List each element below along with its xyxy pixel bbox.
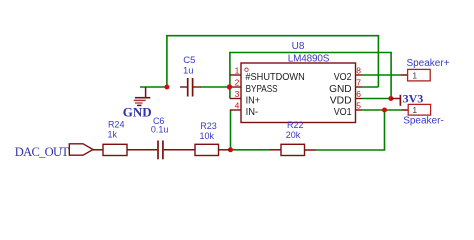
junction dot VDD/3V3 bbox=[388, 96, 393, 101]
wire GND symbol to C5 bbox=[140, 86, 167, 88]
wire pin6 VDD bbox=[362, 98, 391, 100]
capacitor C5 plates bbox=[188, 78, 193, 97]
svg-text:VDD: VDD bbox=[330, 94, 352, 106]
wire R24 to C6 (pins) bbox=[127, 149, 157, 151]
svg-text:R24: R24 bbox=[108, 119, 125, 129]
connector Speaker+ body bbox=[408, 69, 431, 81]
svg-text:LM4890S: LM4890S bbox=[288, 53, 330, 64]
svg-text:6: 6 bbox=[356, 89, 361, 99]
svg-text:GND: GND bbox=[123, 105, 152, 120]
U8 designator marker circle bbox=[245, 68, 248, 71]
port DAC_OUT flag bbox=[69, 144, 93, 155]
svg-text:IN-: IN- bbox=[246, 106, 259, 118]
svg-text:VO2: VO2 bbox=[334, 71, 352, 83]
R22 pin stubs bbox=[269, 149, 317, 151]
op-amp U8 LM4890S body bbox=[241, 63, 356, 123]
wire 3V3 net: top horizontal run bbox=[229, 52, 392, 54]
capacitor C5 pin stubs bbox=[180, 86, 201, 88]
svg-text:#SHUTDOWN: #SHUTDOWN bbox=[245, 71, 304, 83]
svg-text:IN+: IN+ bbox=[246, 94, 261, 106]
svg-text:1: 1 bbox=[412, 105, 417, 115]
svg-text:1k: 1k bbox=[108, 129, 118, 139]
svg-text:Speaker-: Speaker- bbox=[403, 115, 444, 126]
U8 pin stubs left bbox=[230, 75, 242, 110]
wire GND net: vertical from C5/GND junction up bbox=[166, 36, 168, 87]
U8 pin stubs right bbox=[356, 75, 363, 110]
junction dot R23/R22/IN- bbox=[228, 147, 233, 152]
junction dot VO1/Speaker- bbox=[382, 108, 387, 113]
svg-text:VO1: VO1 bbox=[334, 106, 352, 118]
svg-text:GND: GND bbox=[329, 83, 352, 95]
svg-text:20k: 20k bbox=[286, 130, 301, 140]
power port 3V3 pin bbox=[391, 98, 400, 100]
svg-text:1: 1 bbox=[412, 71, 417, 81]
svg-text:C5: C5 bbox=[183, 55, 195, 66]
svg-text:7: 7 bbox=[356, 78, 361, 88]
svg-text:R22: R22 bbox=[287, 120, 304, 130]
wire junction to R22 left bbox=[231, 149, 269, 151]
wire R23 to junction (pin) bbox=[219, 149, 231, 151]
svg-text:0.1u: 0.1u bbox=[151, 124, 169, 134]
connector Speaker+ pin stub bbox=[401, 74, 408, 76]
wire C6 to R23 (pins) bbox=[164, 149, 195, 151]
svg-text:1: 1 bbox=[235, 66, 240, 76]
svg-text:8: 8 bbox=[356, 66, 361, 76]
resistor R24 body bbox=[103, 144, 127, 155]
svg-text:BYPASS: BYPASS bbox=[246, 83, 278, 95]
svg-text:U8: U8 bbox=[292, 41, 305, 52]
wire pin7 GND to vertical bbox=[362, 86, 378, 88]
wire flag to R24 (pin) bbox=[92, 149, 103, 151]
junction dot C5/GND bbox=[164, 85, 169, 90]
connector Speaker- body bbox=[408, 104, 430, 115]
wire 3V3 net: vertical down to VDD bbox=[390, 53, 392, 99]
wire pin5 VO1 to Speaker- bbox=[362, 109, 401, 111]
resistor R23 body bbox=[195, 144, 219, 155]
svg-text:3V3: 3V3 bbox=[403, 92, 424, 106]
svg-text:1u: 1u bbox=[183, 66, 194, 77]
wire pin8 VO2 to Speaker+ bbox=[362, 74, 401, 76]
junction dot BYPASS pin2 bbox=[227, 84, 232, 89]
svg-text:R23: R23 bbox=[200, 121, 217, 131]
resistor R22 body bbox=[281, 144, 305, 155]
wire GND net: top horizontal run bbox=[166, 35, 379, 37]
wire R22 right run bbox=[316, 149, 385, 151]
ground symbol bars bbox=[134, 98, 151, 106]
wire IN- vertical down to R23/R22 junction bbox=[230, 110, 232, 150]
wire GND net: right vertical down to pin 7 bbox=[377, 36, 379, 87]
svg-text:4: 4 bbox=[235, 101, 240, 111]
svg-text:Speaker+: Speaker+ bbox=[406, 58, 449, 69]
svg-text:2: 2 bbox=[235, 78, 240, 88]
wire C5 to pin2 BYPASS bbox=[200, 86, 230, 88]
svg-text:DAC_OUT: DAC_OUT bbox=[15, 145, 69, 159]
svg-text:5: 5 bbox=[356, 101, 361, 111]
svg-text:3: 3 bbox=[235, 89, 240, 99]
power port 3V3 bar bbox=[399, 95, 401, 106]
connector Speaker- pin stub bbox=[401, 109, 408, 111]
wire left vertical pin1-pin3 bbox=[229, 53, 231, 99]
wire VO1 feedback vertical bbox=[384, 110, 386, 150]
svg-text:10k: 10k bbox=[200, 131, 215, 141]
ground symbol pin bbox=[145, 87, 147, 98]
capacitor C6 plates bbox=[158, 141, 163, 160]
